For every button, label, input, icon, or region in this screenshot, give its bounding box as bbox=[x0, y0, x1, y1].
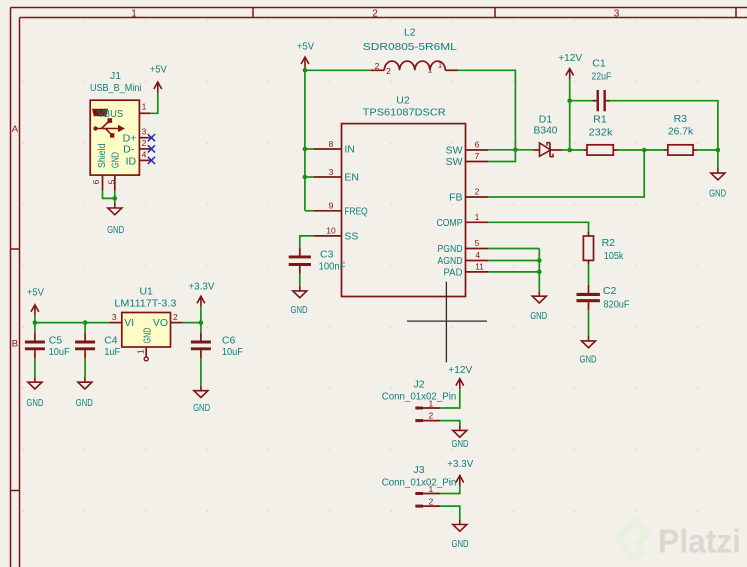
svg-text:1: 1 bbox=[142, 102, 147, 112]
svg-text:GND: GND bbox=[530, 310, 547, 322]
svg-text:GND: GND bbox=[452, 538, 469, 550]
svg-text:C4: C4 bbox=[104, 335, 118, 347]
svg-text:GND: GND bbox=[107, 224, 124, 236]
svg-text:3: 3 bbox=[614, 8, 620, 19]
svg-text:GND: GND bbox=[110, 152, 122, 168]
svg-text:SDR0805-5R6ML: SDR0805-5R6ML bbox=[363, 41, 457, 53]
svg-text:SW: SW bbox=[446, 145, 463, 157]
svg-text:+12V: +12V bbox=[448, 364, 472, 376]
svg-text:6: 6 bbox=[475, 140, 480, 150]
svg-text:11: 11 bbox=[475, 262, 484, 272]
svg-text:2: 2 bbox=[375, 61, 380, 71]
svg-text:10uF: 10uF bbox=[222, 346, 243, 358]
svg-text:Conn_01x02_Pin: Conn_01x02_Pin bbox=[382, 477, 457, 489]
svg-text:232k: 232k bbox=[589, 126, 614, 138]
svg-text:+5V: +5V bbox=[297, 41, 314, 53]
svg-text:2: 2 bbox=[142, 138, 147, 148]
svg-text:VI: VI bbox=[124, 317, 134, 329]
svg-text:5: 5 bbox=[475, 238, 480, 248]
svg-text:ID: ID bbox=[126, 155, 137, 167]
svg-text:FB: FB bbox=[449, 192, 462, 204]
svg-text:2: 2 bbox=[475, 187, 480, 197]
svg-text:GND: GND bbox=[291, 304, 308, 316]
svg-text:10: 10 bbox=[326, 226, 336, 236]
svg-text:1uF: 1uF bbox=[104, 346, 120, 358]
svg-text:VBUS: VBUS bbox=[98, 108, 124, 120]
svg-text:D-: D- bbox=[123, 144, 135, 156]
svg-text:3: 3 bbox=[112, 312, 117, 322]
svg-text:105k: 105k bbox=[604, 250, 624, 262]
svg-text:TPS61087DSCR: TPS61087DSCR bbox=[363, 107, 446, 119]
svg-text:B: B bbox=[12, 339, 18, 350]
svg-text:1: 1 bbox=[429, 398, 434, 408]
svg-text:SS: SS bbox=[344, 231, 358, 243]
svg-text:D+: D+ bbox=[123, 132, 137, 144]
svg-text:FREQ: FREQ bbox=[344, 205, 367, 217]
svg-text:B340: B340 bbox=[534, 124, 558, 136]
svg-text:7: 7 bbox=[475, 151, 480, 161]
svg-text:LM1117T-3.3: LM1117T-3.3 bbox=[114, 298, 176, 310]
svg-text:Conn_01x02_Pin: Conn_01x02_Pin bbox=[382, 391, 457, 403]
svg-text:AGND: AGND bbox=[438, 255, 463, 267]
svg-text:GND: GND bbox=[76, 397, 93, 409]
svg-text:U2: U2 bbox=[396, 95, 410, 107]
svg-text:5: 5 bbox=[106, 179, 116, 184]
svg-text:GND: GND bbox=[452, 438, 469, 450]
svg-text:IN: IN bbox=[344, 144, 355, 156]
svg-text:J2: J2 bbox=[413, 378, 424, 390]
svg-text:9: 9 bbox=[329, 201, 334, 211]
svg-text:R3: R3 bbox=[674, 113, 688, 125]
svg-text:J1: J1 bbox=[110, 70, 121, 82]
svg-text:EN: EN bbox=[344, 172, 359, 184]
svg-text:1: 1 bbox=[428, 65, 433, 75]
svg-text:C3: C3 bbox=[320, 249, 334, 261]
svg-text:GND: GND bbox=[580, 354, 597, 366]
svg-text:22uF: 22uF bbox=[591, 71, 611, 83]
svg-text:GND: GND bbox=[141, 327, 153, 343]
svg-text:100nF: 100nF bbox=[319, 261, 346, 273]
svg-text:C1: C1 bbox=[592, 57, 606, 69]
svg-text:2: 2 bbox=[429, 497, 434, 507]
svg-text:6: 6 bbox=[91, 179, 101, 184]
svg-text:PGND: PGND bbox=[438, 243, 463, 255]
svg-text:+5V: +5V bbox=[150, 64, 167, 76]
svg-text:USB_B_Mini: USB_B_Mini bbox=[90, 82, 142, 94]
svg-text:2: 2 bbox=[173, 312, 178, 322]
svg-text:3: 3 bbox=[142, 127, 147, 137]
svg-text:1: 1 bbox=[131, 8, 137, 19]
svg-text:C6: C6 bbox=[222, 335, 236, 347]
svg-text:VO: VO bbox=[153, 317, 168, 329]
svg-text:+3.3V: +3.3V bbox=[447, 458, 473, 470]
svg-text:C5: C5 bbox=[49, 335, 63, 347]
svg-text:1: 1 bbox=[438, 60, 443, 70]
svg-text:+5V: +5V bbox=[27, 287, 44, 299]
svg-text:1: 1 bbox=[475, 212, 480, 222]
svg-text:U1: U1 bbox=[139, 286, 153, 298]
svg-text:3: 3 bbox=[329, 167, 334, 177]
svg-text:820uF: 820uF bbox=[604, 299, 630, 311]
svg-text:+12V: +12V bbox=[558, 52, 582, 64]
svg-text:2: 2 bbox=[429, 411, 434, 421]
svg-text:26.7k: 26.7k bbox=[668, 126, 694, 138]
svg-text:L2: L2 bbox=[404, 27, 416, 39]
svg-text:COMP: COMP bbox=[437, 217, 463, 229]
svg-text:R1: R1 bbox=[593, 114, 607, 126]
svg-text:1: 1 bbox=[429, 484, 434, 494]
svg-text:2: 2 bbox=[386, 66, 391, 76]
svg-text:GND: GND bbox=[26, 397, 43, 409]
svg-text:SW: SW bbox=[446, 156, 463, 168]
svg-text:R2: R2 bbox=[602, 237, 616, 249]
svg-text:4: 4 bbox=[475, 250, 480, 260]
svg-text:PAD: PAD bbox=[444, 267, 463, 279]
svg-text:A: A bbox=[12, 124, 19, 135]
svg-text:GND: GND bbox=[193, 402, 210, 414]
svg-text:Shield: Shield bbox=[96, 143, 108, 168]
svg-text:+3.3V: +3.3V bbox=[188, 281, 214, 293]
svg-text:8: 8 bbox=[329, 139, 334, 149]
svg-text:J3: J3 bbox=[413, 464, 424, 476]
svg-text:GND: GND bbox=[709, 187, 726, 199]
svg-text:Platzi: Platzi bbox=[658, 523, 741, 560]
svg-text:2: 2 bbox=[372, 8, 378, 19]
svg-text:10uF: 10uF bbox=[49, 346, 70, 358]
svg-text:C2: C2 bbox=[603, 285, 617, 297]
svg-text:4: 4 bbox=[142, 149, 147, 159]
svg-text:1: 1 bbox=[135, 349, 145, 354]
